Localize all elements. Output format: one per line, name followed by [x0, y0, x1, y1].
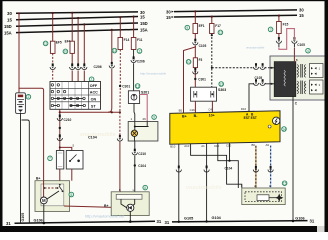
svg-text:10: 10: [64, 50, 68, 54]
G106 label right: [295, 216, 304, 220]
svg-text:15A: 15A: [140, 27, 148, 32]
G105 label right: [184, 216, 193, 220]
node C301: [119, 85, 130, 89]
svg-text:1: 1: [91, 78, 93, 82]
svg-text:F: F: [119, 188, 121, 192]
svg-text:G105: G105: [21, 213, 25, 222]
wire battery to starter B+: [19, 88, 44, 180]
fuse EF1: [193, 24, 205, 34]
ECM ground wire 1: [176, 144, 181, 223]
wire F15 to connector: [278, 34, 280, 40]
svg-text:8: 8: [144, 186, 146, 190]
wire C105 to module: [293, 48, 295, 56]
svg-text:C10: C10: [214, 144, 220, 148]
svg-text:C210: C210: [138, 152, 146, 156]
svg-text:vnautomobile: vnautomobile: [80, 132, 116, 138]
wire 15D bus to switch: [83, 23, 85, 66]
dashed wire F17 down: [211, 34, 213, 88]
svg-text:12: 12: [136, 84, 140, 88]
svg-text:12: 12: [219, 31, 223, 35]
connector C104 left: [57, 134, 62, 140]
circled number 10: [186, 60, 191, 65]
svg-text:31: 31: [6, 221, 11, 226]
watermark left bottom: [85, 213, 125, 218]
circled number 2: [137, 49, 142, 54]
circled number 9: [185, 25, 190, 30]
starter B+ to generator wire: [64, 206, 127, 208]
svg-text:15: 15: [299, 13, 304, 18]
svg-text:B6: B6: [252, 143, 256, 147]
svg-text:C104: C104: [225, 167, 233, 171]
circled number 14: [282, 127, 287, 132]
wire below fuse EF4: [71, 53, 73, 65]
svg-text:S303: S303: [218, 88, 226, 92]
connector C206 row: [50, 62, 115, 70]
svg-text:9: 9: [153, 115, 155, 119]
fuse F11 feed: [133, 16, 135, 38]
ECM yellow box: [170, 107, 280, 148]
svg-text:B: B: [296, 58, 298, 62]
S303 outputs to ECM: [195, 101, 212, 113]
svg-text:3: 3: [270, 28, 272, 32]
circled number 12: [218, 30, 223, 35]
starter motor M001 box: [35, 177, 70, 212]
svg-text:31: 31: [165, 220, 170, 225]
circled number 4: [306, 48, 311, 53]
svg-text:B5: B5: [179, 108, 183, 112]
wire C206 to S201: [133, 63, 135, 91]
watermark right: [246, 46, 265, 50]
wire battery feed from 30: [18, 12, 20, 93]
fuse F14: [118, 38, 129, 50]
svg-text:B+: B+: [104, 204, 108, 208]
svg-text:C210: C210: [64, 118, 72, 122]
wire F3 down: [193, 68, 207, 88]
svg-text:M: M: [42, 198, 46, 203]
black wire ECM to module: [249, 79, 270, 111]
svg-text:C16: C16: [190, 108, 196, 112]
watermark pale yellow right: [186, 185, 222, 191]
module C pin ground wire: [292, 96, 298, 222]
generator diode: [121, 199, 135, 211]
wire 15A bus down: [111, 29, 113, 64]
wire 15 bus to switch: [77, 17, 79, 66]
fuse F15: [277, 22, 289, 34]
G104 label right: [212, 216, 222, 220]
svg-text:OFF: OFF: [90, 84, 98, 88]
fuse EF5 feed: [52, 12, 54, 41]
svg-text:A10: A10: [184, 144, 189, 148]
svg-text:G106: G106: [34, 218, 43, 222]
svg-text:http://vnautomobile.net: http://vnautomobile.net: [85, 213, 125, 218]
battery circled number: [26, 95, 31, 100]
connector C210: [57, 114, 71, 121]
svg-text:15: 15: [140, 15, 145, 20]
ECM ground wire 2: [204, 143, 209, 222]
svg-text:C10: C10: [226, 144, 232, 148]
svg-text:B+: B+: [182, 114, 187, 118]
circled number 3: [268, 27, 273, 32]
wire F11 to C206: [133, 50, 135, 59]
fuse F3: [193, 58, 202, 68]
svg-text:F15: F15: [283, 22, 289, 26]
svg-text:2: 2: [27, 95, 29, 99]
bus 31 bottom left: [6, 219, 162, 226]
svg-text:15A: 15A: [4, 30, 12, 35]
relay outputs to starter: [60, 169, 72, 181]
svg-text:11: 11: [44, 42, 48, 46]
DIS module inner dark box: [274, 62, 296, 97]
instrument cluster box: [128, 117, 158, 141]
generator G001 box: [104, 188, 149, 216]
svg-text:ON: ON: [91, 98, 97, 102]
relay K? coil: [56, 151, 63, 170]
bus 15A: [4, 27, 148, 35]
ECM wire rail2: [218, 143, 239, 188]
svg-text:vnautomobile: vnautomobile: [246, 46, 265, 50]
svg-text:15: 15: [166, 15, 171, 20]
fuse F17: [210, 24, 221, 34]
sensor striped wire 2: [268, 146, 273, 188]
bus 15D: [4, 21, 148, 29]
connector C206 right: [131, 56, 145, 63]
C104 label: [88, 136, 98, 140]
circled number 12: [135, 84, 140, 89]
circled number 11: [43, 41, 48, 46]
circled number 1: [89, 77, 94, 82]
svg-text:A1: A1: [201, 144, 205, 148]
relay switch box: [66, 144, 83, 169]
svg-text:B+: B+: [36, 177, 40, 181]
svg-text:C4: C4: [208, 108, 212, 112]
svg-text:31: 31: [310, 219, 315, 224]
svg-text:http://vnautomobile: http://vnautomobile: [140, 72, 166, 76]
svg-text:26: 26: [143, 117, 147, 121]
wire ST output down: [59, 109, 61, 150]
fuse F14 feed: [119, 16, 121, 37]
svg-text:EF1: EF1: [199, 24, 205, 28]
bus 30 right: [166, 8, 304, 15]
connector C210 right: [132, 149, 146, 156]
svg-text:F17: F17: [215, 24, 221, 28]
bus 15: [7, 15, 145, 23]
svg-text:31: 31: [157, 219, 162, 224]
circled number 5: [69, 192, 74, 197]
node dot: [59, 127, 61, 129]
fuse EF4: [65, 40, 75, 54]
svg-text:30: 30: [166, 9, 171, 14]
svg-text:C301: C301: [198, 78, 206, 82]
C105 mid label: [255, 76, 263, 80]
G106 label: [34, 218, 43, 222]
DIS module outer box: [270, 56, 325, 100]
svg-text:15: 15: [7, 18, 12, 23]
fuse F17 feed: [211, 16, 213, 24]
C206 label: [94, 65, 102, 69]
ignition coil 2: [297, 80, 323, 94]
circled number 10: [63, 49, 68, 54]
sensor striped wire 1: [253, 146, 258, 188]
svg-text:G106: G106: [295, 216, 304, 220]
fuse EF5: [50, 41, 61, 54]
ignition switch table S001: [50, 82, 101, 110]
wire to fuse F3: [194, 46, 196, 58]
wire cluster to generator L: [134, 141, 136, 151]
wire relay switch feed: [59, 146, 72, 150]
circled number 15: [282, 181, 287, 186]
circled number 13: [219, 82, 224, 87]
svg-text:B10: B10: [170, 144, 175, 148]
dashed wire below fuse EF5: [52, 53, 54, 65]
starter solenoid dashes: [44, 184, 64, 192]
svg-text:G105: G105: [184, 216, 193, 220]
svg-text:EST EST: EST EST: [244, 116, 257, 120]
svg-text:C206: C206: [137, 60, 145, 64]
ECM wire A10 to sensor shield: [191, 144, 242, 189]
bus 15 right: [166, 13, 304, 20]
svg-text:15D: 15D: [4, 24, 12, 29]
svg-text:14: 14: [282, 127, 286, 131]
S303 box: [191, 87, 227, 101]
bus 30: [7, 10, 145, 16]
svg-text:10: 10: [187, 60, 191, 64]
svg-text:2: 2: [139, 49, 141, 53]
connector C104 on dashed wire: [117, 135, 122, 141]
wire C104 to generator F: [120, 142, 121, 195]
pink loop wire: [279, 29, 295, 50]
pink wire S201 to cluster pin 26: [140, 95, 148, 122]
svg-text:ST: ST: [91, 104, 96, 108]
svg-text:EF4: EF4: [65, 40, 71, 44]
svg-text:7: 7: [49, 157, 51, 161]
bus 31 bottom right: [165, 219, 315, 225]
module top pin wire: [294, 56, 297, 62]
watermark mid left: [140, 72, 166, 76]
ignition coil 1: [297, 64, 323, 78]
circled number 8: [143, 185, 148, 190]
wire segment: [134, 156, 136, 195]
module left pins: [270, 67, 275, 85]
svg-text:G104: G104: [212, 216, 222, 220]
svg-text:10+: 10+: [209, 114, 215, 118]
wire S201 to cluster pin 1: [133, 104, 136, 122]
fuse F15 feed: [278, 15, 280, 22]
wire ST horizontal to dashed: [60, 111, 121, 113]
svg-text:F14: F14: [124, 38, 130, 42]
connector C105 mid pair top: [253, 63, 265, 69]
starter internal B+ wire: [44, 181, 59, 199]
connector C6: [193, 39, 207, 48]
circled number 9 cluster: [152, 115, 157, 120]
key switch S201: [128, 91, 149, 104]
svg-text:5: 5: [70, 193, 72, 197]
svg-text:30: 30: [299, 8, 304, 13]
svg-text:C206: C206: [94, 65, 102, 69]
crank sensor box: [241, 184, 285, 205]
svg-text:C301: C301: [122, 85, 130, 89]
charge warning lamp: [131, 122, 148, 142]
svg-text:13: 13: [219, 82, 223, 86]
circled number 7: [48, 156, 53, 161]
svg-text:4: 4: [307, 49, 309, 53]
svg-text:C104: C104: [138, 164, 146, 168]
wires connectors to switch table: [53, 69, 112, 112]
dashed wire F14 to C301: [119, 50, 121, 113]
svg-text:9: 9: [186, 26, 188, 30]
svg-text:15D: 15D: [140, 21, 148, 26]
battery negative cable to ground G105: [21, 113, 30, 224]
wire to ECM B+ jog: [184, 46, 196, 114]
svg-text:15: 15: [283, 182, 287, 186]
svg-text:13: 13: [113, 49, 117, 53]
circled number 13: [112, 48, 117, 53]
watermark pale yellow left: [80, 132, 116, 138]
starter ground wire: [43, 204, 46, 225]
svg-text:C105: C105: [297, 43, 305, 47]
dashed wire to C104: [119, 112, 121, 137]
G105 label (vertical): [21, 213, 25, 222]
wire EF1 to connector: [194, 34, 196, 42]
svg-text:F11: F11: [137, 38, 143, 42]
dashed wire to module: [211, 67, 270, 69]
fuse F11: [131, 38, 142, 50]
fuse EF1 feed: [194, 10, 196, 23]
battery G?: [16, 93, 26, 114]
connector C105 pair: [276, 37, 305, 47]
fuse EF4 feed: [71, 12, 73, 42]
generator ground wire: [129, 211, 132, 223]
svg-text:D16: D16: [241, 107, 247, 111]
starter motor M circle: [40, 197, 47, 204]
svg-text:C105: C105: [199, 44, 207, 48]
svg-text:EF5: EF5: [56, 41, 62, 45]
C104 label right half: [225, 167, 233, 171]
node C104: [134, 164, 147, 168]
svg-text:A9: A9: [266, 143, 270, 147]
svg-text:vnautomobile: vnautomobile: [186, 185, 222, 191]
svg-text:ACC: ACC: [90, 91, 98, 95]
svg-text:30: 30: [7, 11, 12, 16]
svg-text:F3: F3: [199, 58, 203, 62]
